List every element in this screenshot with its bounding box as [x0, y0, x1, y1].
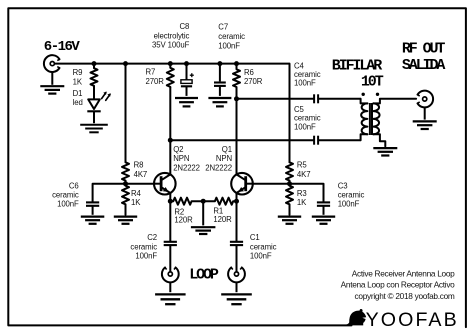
transistor Q2 — [154, 173, 176, 195]
ground below right loop jack — [221, 283, 252, 305]
wire C4 line — [237, 98, 315, 100]
svg-text:ceramic: ceramic — [218, 32, 245, 41]
label R9 1K — [73, 68, 83, 86]
label D1 led — [73, 89, 83, 107]
wire primary bottom lead — [361, 134, 368, 140]
label C8 electrolytic 35V 100uF — [152, 22, 190, 49]
svg-text:led: led — [73, 98, 83, 107]
capacitor C3 — [317, 202, 330, 214]
resistor R4 — [122, 184, 129, 215]
label C1 ceramic 100nF — [250, 233, 277, 261]
wire C4 to transformer — [318, 98, 361, 100]
label C7 ceramic 100nF — [218, 23, 245, 51]
phase dot primary — [362, 93, 365, 96]
svg-text:4K7: 4K7 — [297, 170, 311, 179]
node Q2 base — [123, 181, 128, 186]
node emitter center — [201, 199, 206, 204]
resistor R9 — [91, 64, 98, 86]
label C2 ceramic 100nF — [130, 233, 157, 261]
svg-text:100nF: 100nF — [135, 252, 157, 261]
svg-text:R8: R8 — [134, 161, 144, 170]
svg-text:10T: 10T — [361, 73, 384, 90]
wire rail to C8 — [186, 64, 188, 80]
svg-text:NPN: NPN — [173, 154, 189, 163]
capacitor C8 electrolytic — [181, 73, 194, 96]
wire collector rail to C5 — [170, 139, 314, 141]
node rail-C7 — [217, 61, 222, 66]
svg-text:copyright © 2018 yoofab.com: copyright © 2018 yoofab.com — [355, 291, 455, 301]
wire primary top lead — [361, 99, 368, 104]
wire Q2 emitter — [169, 193, 171, 201]
svg-text:ceramic: ceramic — [52, 191, 79, 200]
svg-text:electrolytic: electrolytic — [154, 31, 190, 40]
svg-text:270R: 270R — [146, 77, 165, 86]
svg-text:C1: C1 — [250, 233, 260, 242]
wire center to ground — [202, 201, 204, 225]
node rail-R7 — [168, 61, 173, 66]
svg-text:4K7: 4K7 — [134, 170, 148, 179]
ground below RF out jack — [413, 107, 437, 129]
svg-text:R5: R5 — [297, 161, 308, 170]
svg-text:120R: 120R — [174, 216, 193, 225]
svg-text:Antena Loop con Receptor Activ: Antena Loop con Receptor Activo — [341, 280, 456, 290]
svg-text:2N2222: 2N2222 — [205, 163, 232, 172]
label R7 270R — [146, 68, 165, 86]
ground below D1 — [80, 125, 108, 133]
svg-text:RF OUT: RF OUT — [402, 41, 446, 58]
svg-text:100nF: 100nF — [294, 79, 316, 88]
node R7-Q2col — [168, 138, 173, 143]
ground below left loop jack — [155, 283, 186, 305]
label Q2 NPN 2N2222 — [173, 145, 200, 172]
svg-text:Active Receiver Antenna Loop: Active Receiver Antenna Loop — [352, 269, 455, 279]
svg-text:R4: R4 — [131, 189, 142, 198]
svg-text:100nF: 100nF — [250, 252, 272, 261]
wire emitter to C2 — [169, 201, 171, 241]
svg-text:2N2222: 2N2222 — [173, 163, 200, 172]
ground below C7 — [208, 98, 231, 106]
node rail-R9 — [92, 61, 97, 66]
node rail-R8 — [123, 61, 128, 66]
svg-text:ceramic: ceramic — [130, 242, 157, 251]
ground below C8 — [175, 98, 198, 106]
node Q1 base — [287, 181, 292, 186]
svg-text:C2: C2 — [147, 233, 157, 242]
svg-text:C3: C3 — [338, 182, 348, 191]
ground below transformer — [373, 148, 397, 155]
svg-text:BIFILAR: BIFILAR — [332, 58, 382, 75]
node Q2 emitter — [168, 199, 173, 204]
svg-text:270R: 270R — [244, 77, 263, 86]
svg-text:C5: C5 — [294, 105, 305, 114]
transformer core — [369, 103, 371, 135]
transformer T1 secondary winding — [373, 103, 379, 134]
ground below R4 — [114, 217, 137, 224]
connector loop jack right — [228, 267, 245, 282]
resistor R2 — [170, 198, 203, 205]
resistor R6 — [233, 64, 240, 87]
node R6-C4-Q1col — [234, 96, 239, 101]
node Q1 emitter — [234, 199, 239, 204]
svg-text:LOOP: LOOP — [189, 266, 219, 283]
label R2 120R — [174, 207, 193, 224]
wire R8 to base node — [125, 181, 127, 184]
svg-text:100nF: 100nF — [294, 122, 316, 131]
svg-text:Q1: Q1 — [222, 145, 232, 154]
wire rail to C7 — [219, 64, 221, 82]
svg-text:R9: R9 — [73, 68, 83, 77]
yoofab logo rat icon — [349, 309, 366, 325]
capacitor C5 — [314, 136, 318, 145]
svg-text:100nF: 100nF — [57, 200, 79, 209]
wire rail to R8 — [125, 64, 127, 163]
node rail-R6 — [234, 61, 239, 66]
connector J1 power input jack — [44, 55, 60, 72]
wire Q2 collector — [169, 140, 171, 174]
svg-text:SALIDA: SALIDA — [402, 57, 446, 74]
label R1 120R — [213, 207, 232, 224]
svg-text:120R: 120R — [213, 215, 232, 224]
svg-text:1K: 1K — [131, 198, 141, 207]
svg-text:NPN: NPN — [216, 154, 232, 163]
wire base node to C6 — [93, 184, 126, 202]
svg-text:Q2: Q2 — [173, 145, 183, 154]
svg-text:C8: C8 — [180, 22, 190, 31]
svg-text:D1: D1 — [73, 89, 83, 98]
svg-text:ceramic: ceramic — [294, 70, 321, 79]
label R3 1K — [297, 189, 307, 207]
label Q1 NPN 2N2222 — [205, 145, 232, 172]
svg-text:100nF: 100nF — [338, 200, 360, 209]
label C5 ceramic 100nF — [294, 105, 321, 131]
svg-text:6-16V: 6-16V — [44, 39, 81, 55]
svg-text:ceramic: ceramic — [338, 191, 365, 200]
svg-text:R3: R3 — [297, 189, 307, 198]
phase dot secondary — [376, 93, 379, 96]
wire C5 to transformer — [318, 139, 361, 141]
svg-text:C4: C4 — [294, 61, 305, 70]
label RF OUT SALIDA — [402, 41, 446, 74]
label R4 1K — [131, 189, 142, 207]
label BIFILAR 10T — [332, 58, 384, 91]
ground below power jack — [40, 72, 64, 94]
svg-text:R7: R7 — [146, 68, 156, 77]
wire Q1 collector — [236, 99, 238, 175]
LED D1 — [87, 86, 111, 123]
ground center emitters — [191, 227, 216, 234]
wire base Q1 — [253, 183, 290, 185]
svg-text:100nF: 100nF — [218, 42, 240, 51]
wire Q1 emitter — [236, 193, 238, 201]
transistor Q1 — [231, 173, 253, 195]
wire C1 to loop jack — [236, 245, 238, 272]
svg-text:ceramic: ceramic — [294, 114, 321, 123]
label C3 ceramic 100nF — [338, 182, 365, 209]
label C6 ceramic 100nF — [52, 182, 79, 209]
resistor R3 — [286, 184, 293, 215]
wire base node to C3 — [290, 184, 324, 202]
label R8 4K7 — [134, 161, 148, 179]
svg-text:1K: 1K — [73, 77, 83, 86]
node rail-C8 — [184, 61, 189, 66]
wire secondary bottom lead — [373, 134, 385, 146]
svg-text:C7: C7 — [218, 23, 228, 32]
svg-text:35V 100uF: 35V 100uF — [152, 40, 190, 49]
wire R5 to base node — [289, 181, 291, 184]
wire R6 to C4 node — [236, 87, 238, 99]
capacitor C2 — [164, 242, 177, 245]
wire secondary top lead — [373, 99, 416, 104]
wire R7 to collector node — [169, 87, 171, 140]
capacitor C1 — [230, 242, 243, 245]
resistor R7 — [167, 64, 174, 87]
label C4 ceramic 100nF — [294, 61, 321, 87]
label R5 4K7 — [297, 161, 311, 179]
ground below C3 — [312, 217, 335, 224]
resistor R1 — [203, 198, 236, 205]
label R6 270R — [244, 68, 263, 86]
ground below C6 — [81, 217, 105, 224]
ground below R3 — [278, 217, 301, 224]
transformer T1 primary winding — [361, 103, 367, 134]
connector RF out jack — [418, 91, 434, 108]
svg-text:YOOFAB: YOOFAB — [366, 309, 459, 331]
svg-text:R6: R6 — [244, 68, 254, 77]
svg-text:1K: 1K — [297, 198, 307, 207]
capacitor C6 — [86, 202, 99, 214]
resistor R5 — [286, 162, 293, 180]
connector loop jack left — [162, 267, 179, 282]
capacitor C4 — [314, 94, 318, 103]
capacitor C7 — [214, 83, 226, 96]
wire emitter to C1 — [236, 201, 238, 241]
wire base Q2 — [126, 183, 155, 185]
svg-text:ceramic: ceramic — [250, 242, 277, 251]
svg-text:C6: C6 — [69, 182, 79, 191]
wire power rail — [55, 63, 290, 65]
wire C2 to loop jack — [169, 245, 171, 272]
wire rail corner down to R5 — [289, 64, 291, 163]
resistor R8 — [122, 162, 129, 180]
